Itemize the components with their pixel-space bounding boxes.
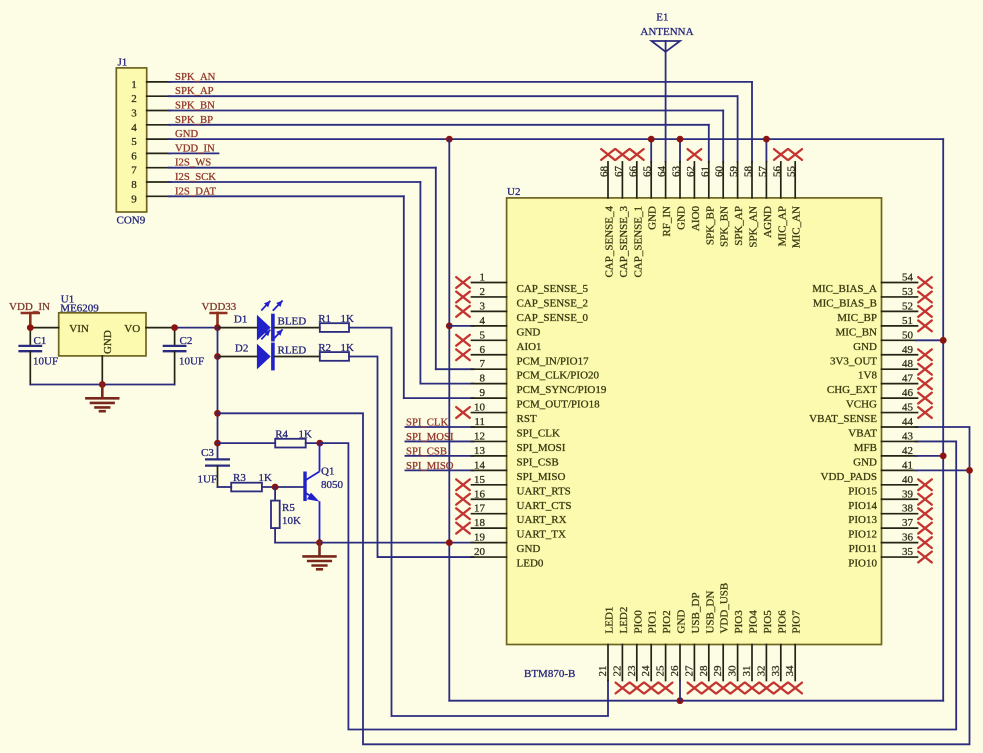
svg-text:33: 33 bbox=[770, 665, 782, 677]
svg-text:GND: GND bbox=[175, 128, 198, 140]
svg-text:16: 16 bbox=[474, 488, 486, 500]
U2 pin 36 PIO11 bbox=[849, 532, 932, 556]
svg-text:RST: RST bbox=[517, 413, 537, 425]
svg-text:BTM870-B: BTM870-B bbox=[524, 668, 575, 680]
wire antenna to RF_IN bbox=[665, 52, 667, 162]
svg-text:42: 42 bbox=[902, 445, 913, 457]
junction U1 GND bbox=[99, 381, 106, 388]
svg-text:48: 48 bbox=[902, 358, 914, 370]
wire emitter to pin19 bbox=[320, 542, 474, 544]
svg-text:PIO2: PIO2 bbox=[661, 610, 673, 633]
U2 pin 32 PIO5 bbox=[755, 610, 774, 694]
node SPK_AN label bbox=[175, 71, 216, 83]
svg-text:41: 41 bbox=[902, 459, 913, 471]
IC U2 BTM870-B bbox=[507, 186, 882, 680]
svg-text:ANTENNA: ANTENNA bbox=[640, 26, 693, 38]
U2 pin 10 RST bbox=[456, 402, 537, 426]
svg-text:MIC_AN: MIC_AN bbox=[791, 206, 803, 248]
svg-text:36: 36 bbox=[902, 532, 914, 544]
U2 pin 17 UART_RX bbox=[456, 503, 566, 527]
junction GND mid at pin4 bbox=[446, 322, 453, 329]
svg-text:1: 1 bbox=[131, 79, 137, 91]
svg-text:1K: 1K bbox=[299, 428, 313, 440]
U2 pin 45 VBAT_SENSE bbox=[809, 402, 932, 426]
svg-text:34: 34 bbox=[784, 665, 796, 677]
wire I2S_DAT horizontal bbox=[169, 195, 404, 197]
svg-text:Q1: Q1 bbox=[321, 466, 334, 478]
svg-text:10UF: 10UF bbox=[179, 356, 204, 368]
regulator U1 ME6209 bbox=[59, 294, 146, 356]
wire VDD33 branch D2 bbox=[217, 328, 219, 357]
svg-text:I2S_DAT: I2S_DAT bbox=[175, 185, 216, 197]
svg-text:VDD_USB: VDD_USB bbox=[719, 583, 731, 634]
wire GND rail right vertical bbox=[942, 139, 944, 701]
svg-text:VIN: VIN bbox=[69, 323, 89, 335]
svg-text:13: 13 bbox=[474, 445, 486, 457]
svg-text:VDD_IN: VDD_IN bbox=[175, 142, 215, 154]
junction emitter node bbox=[316, 539, 323, 546]
U2 pin 12 SPI_MOSI bbox=[472, 430, 566, 454]
svg-text:6: 6 bbox=[480, 344, 486, 356]
svg-text:18: 18 bbox=[474, 517, 486, 529]
U2 pin 31 PIO4 bbox=[741, 610, 760, 694]
svg-text:C3: C3 bbox=[201, 447, 214, 459]
svg-text:44: 44 bbox=[902, 416, 914, 428]
svg-text:PIO3: PIO3 bbox=[733, 610, 745, 634]
wire I2S_DAT vertical bbox=[403, 196, 405, 398]
svg-text:PIO0: PIO0 bbox=[632, 610, 644, 634]
svg-text:15: 15 bbox=[474, 474, 486, 486]
svg-text:VDD_IN: VDD_IN bbox=[9, 301, 50, 313]
svg-text:35: 35 bbox=[902, 546, 914, 558]
svg-text:MIC_BP: MIC_BP bbox=[837, 312, 877, 324]
wire I2S_WS horizontal bbox=[169, 167, 436, 169]
svg-text:GND: GND bbox=[517, 543, 541, 555]
J1 pin 4 bbox=[131, 122, 170, 134]
U2 pin 20 LED0 bbox=[472, 546, 544, 570]
wire pin41 VDD_PADS bbox=[916, 469, 970, 471]
wire VO rail bbox=[146, 327, 218, 329]
svg-text:45: 45 bbox=[902, 402, 914, 414]
svg-text:SPI_MOSI: SPI_MOSI bbox=[406, 431, 454, 443]
wire R3 to base bbox=[262, 486, 305, 488]
U2 pin 59 SPK_AP bbox=[728, 162, 745, 246]
svg-text:67: 67 bbox=[613, 166, 625, 178]
ground under Q1 bbox=[304, 543, 336, 570]
J1 pin 1 bbox=[131, 79, 170, 91]
svg-text:UART_CTS: UART_CTS bbox=[517, 500, 572, 512]
U2 pin 2 CAP_SENSE_2 bbox=[456, 286, 588, 310]
U2 pin 38 PIO13 bbox=[848, 503, 932, 527]
wire GND bottom horizontal bbox=[449, 700, 943, 702]
U2 pin 23 PIO0 bbox=[626, 610, 645, 694]
svg-text:37: 37 bbox=[902, 517, 914, 529]
junction base node bbox=[272, 484, 279, 491]
svg-text:23: 23 bbox=[626, 665, 638, 677]
svg-text:UART_TX: UART_TX bbox=[517, 529, 567, 541]
svg-text:LED1: LED1 bbox=[604, 607, 616, 634]
svg-text:R4: R4 bbox=[275, 428, 288, 440]
wire VDD33 vertical bbox=[217, 357, 219, 460]
svg-text:55: 55 bbox=[786, 166, 798, 178]
wire pin42 GND bbox=[916, 455, 944, 457]
svg-text:SPK_BP: SPK_BP bbox=[175, 114, 213, 126]
svg-text:61: 61 bbox=[699, 166, 711, 177]
svg-text:USB_DN: USB_DN bbox=[704, 591, 716, 634]
svg-text:8: 8 bbox=[480, 373, 486, 385]
node I2S_DAT label bbox=[175, 185, 216, 197]
svg-text:C2: C2 bbox=[180, 335, 193, 347]
svg-text:62: 62 bbox=[685, 166, 697, 177]
svg-text:10UF: 10UF bbox=[33, 356, 58, 368]
svg-text:66: 66 bbox=[627, 166, 639, 178]
wire SPK_AP horizontal bbox=[169, 95, 738, 97]
U2 pin 47 CHG_EXT bbox=[827, 373, 932, 397]
svg-text:8: 8 bbox=[131, 179, 137, 191]
wire SPK_AN vertical bbox=[751, 82, 753, 162]
svg-text:PIO11: PIO11 bbox=[849, 543, 877, 555]
svg-text:8050: 8050 bbox=[321, 479, 344, 491]
U2 pin 14 SPI_MISO bbox=[472, 459, 566, 483]
U2 pin 65 GND bbox=[642, 162, 659, 230]
U2 pin 29 VDD_USB bbox=[712, 583, 731, 694]
U2 pin 25 PIO2 bbox=[655, 610, 674, 693]
svg-text:R5: R5 bbox=[282, 502, 295, 514]
J1 pin 3 bbox=[131, 108, 170, 120]
svg-text:39: 39 bbox=[902, 488, 914, 500]
svg-text:SPI_MOSI: SPI_MOSI bbox=[517, 442, 566, 454]
junction VDD_IN node bbox=[27, 324, 34, 331]
svg-text:10: 10 bbox=[474, 402, 486, 414]
resistor R3 1K bbox=[231, 472, 272, 491]
node I2S_WS label bbox=[175, 157, 211, 169]
svg-text:AIO0: AIO0 bbox=[690, 206, 702, 232]
wire C1 C2 ground rail bbox=[30, 384, 174, 386]
capacitor C1 bbox=[18, 328, 58, 385]
svg-text:SPI_MISO: SPI_MISO bbox=[406, 460, 454, 472]
svg-text:UART_RTS: UART_RTS bbox=[517, 485, 571, 497]
J1 pin 2 bbox=[131, 93, 170, 105]
wire R4 to collector node bbox=[306, 442, 320, 444]
wire pin9 row bbox=[404, 397, 474, 399]
U2 pin 4 GND bbox=[472, 315, 541, 339]
wire SPK_BN horizontal bbox=[169, 110, 724, 112]
wire SPI_MOSI bbox=[405, 440, 473, 442]
svg-text:SPK_BN: SPK_BN bbox=[175, 100, 215, 112]
svg-text:59: 59 bbox=[728, 166, 740, 178]
U2 pin 50 GND bbox=[853, 329, 917, 353]
svg-text:SPK_AP: SPK_AP bbox=[175, 85, 214, 97]
connector J1 bbox=[116, 57, 146, 227]
wire to R4 bbox=[218, 442, 276, 444]
svg-text:GND: GND bbox=[853, 456, 877, 468]
svg-text:PIO14: PIO14 bbox=[848, 500, 877, 512]
U2 pin 7 PCM_CLK/PIO20 bbox=[472, 358, 600, 382]
svg-text:54: 54 bbox=[902, 272, 914, 284]
svg-text:AGND: AGND bbox=[762, 206, 774, 238]
svg-text:68: 68 bbox=[599, 166, 611, 178]
junction GND at pin57 bbox=[763, 136, 770, 143]
U2 pin 67 CAP_SENSE_3 bbox=[613, 149, 630, 277]
U2 pin 35 PIO10 bbox=[848, 546, 932, 570]
svg-text:CAP_SENSE_5: CAP_SENSE_5 bbox=[517, 283, 589, 295]
svg-text:PIO15: PIO15 bbox=[848, 485, 877, 497]
svg-text:PIO1: PIO1 bbox=[647, 610, 659, 633]
svg-text:7: 7 bbox=[131, 165, 137, 177]
junction GND at pin63 bbox=[677, 136, 684, 143]
antenna E1 bbox=[640, 12, 693, 52]
U2 pin 16 UART_CTS bbox=[456, 488, 571, 512]
svg-text:26: 26 bbox=[669, 665, 681, 677]
U2 pin 57 AGND bbox=[757, 162, 774, 238]
wire I2S_SCK horizontal bbox=[169, 181, 421, 183]
svg-text:40: 40 bbox=[902, 474, 914, 486]
U2 pin 19 GND bbox=[472, 532, 541, 556]
svg-text:30: 30 bbox=[727, 665, 739, 677]
U2 pin 27 USB_DP bbox=[683, 593, 702, 694]
junction VBAT tap bbox=[214, 410, 221, 417]
svg-text:AIO1: AIO1 bbox=[517, 341, 542, 353]
svg-text:9: 9 bbox=[480, 387, 486, 399]
svg-text:49: 49 bbox=[902, 344, 914, 356]
U2 pin 55 MIC_AN bbox=[786, 149, 803, 248]
J1 pin 6 bbox=[131, 150, 170, 162]
svg-text:63: 63 bbox=[671, 166, 683, 178]
U2 pin 58 SPK_AN bbox=[743, 162, 760, 248]
svg-text:3V3_OUT: 3V3_OUT bbox=[830, 355, 877, 367]
svg-text:CAP_SENSE_0: CAP_SENSE_0 bbox=[517, 312, 589, 324]
svg-text:GND: GND bbox=[517, 326, 541, 338]
svg-text:D2: D2 bbox=[235, 343, 248, 355]
U2 pin 15 UART_RTS bbox=[456, 474, 571, 498]
wire D2 anode bbox=[218, 356, 257, 358]
junction collector node bbox=[316, 440, 323, 447]
svg-text:1K: 1K bbox=[341, 313, 355, 325]
U2 pin 42 GND bbox=[853, 445, 917, 469]
svg-text:SPK_AN: SPK_AN bbox=[175, 71, 216, 83]
svg-text:46: 46 bbox=[902, 387, 914, 399]
wire VDD_IN horizontal bbox=[169, 152, 219, 154]
svg-text:1: 1 bbox=[480, 272, 486, 284]
U2 pin 53 MIC_BIAS_B bbox=[813, 286, 932, 310]
J1 pin 8 bbox=[131, 179, 170, 191]
svg-text:D1: D1 bbox=[234, 314, 247, 326]
svg-text:28: 28 bbox=[698, 665, 710, 677]
capacitor C2 bbox=[163, 328, 204, 385]
wire GND drop pin65 bbox=[650, 139, 652, 162]
wire SPI_CSB bbox=[405, 455, 473, 457]
capacitor C3 bbox=[198, 447, 231, 487]
svg-text:32: 32 bbox=[755, 666, 767, 677]
U2 pin 34 PIO7 bbox=[784, 610, 803, 694]
svg-text:SPI_CLK: SPI_CLK bbox=[517, 428, 560, 440]
svg-text:I2S_WS: I2S_WS bbox=[175, 157, 211, 169]
svg-text:22: 22 bbox=[611, 666, 623, 677]
svg-text:5: 5 bbox=[480, 329, 486, 341]
wire GND drop pin63 bbox=[679, 139, 681, 162]
U2 pin 18 UART_TX bbox=[456, 517, 566, 541]
wire VDD33 to D1 bbox=[218, 327, 257, 329]
U2 pin 68 CAP_SENSE_4 bbox=[599, 149, 616, 277]
svg-text:RLED: RLED bbox=[278, 345, 307, 357]
wire SPI_CLK bbox=[405, 426, 473, 428]
wire GND horizontal bbox=[169, 138, 944, 140]
junction C2 node bbox=[171, 324, 178, 331]
U2 pin 28 USB_DN bbox=[698, 591, 717, 694]
svg-text:BLED: BLED bbox=[278, 316, 307, 328]
svg-text:VCHG: VCHG bbox=[846, 399, 877, 411]
svg-text:PIO13: PIO13 bbox=[848, 514, 877, 526]
U2 pin 54 MIC_BIAS_A bbox=[812, 272, 932, 296]
led D2 RLED bbox=[235, 329, 306, 370]
svg-text:CHG_EXT: CHG_EXT bbox=[827, 384, 877, 396]
pin U1 GND bbox=[101, 356, 103, 385]
U2 pin 37 PIO12 bbox=[848, 517, 932, 541]
svg-text:1K: 1K bbox=[259, 472, 273, 484]
svg-text:38: 38 bbox=[902, 503, 914, 515]
J1 pin 9 bbox=[131, 193, 170, 205]
svg-text:CAP_SENSE_2: CAP_SENSE_2 bbox=[517, 297, 589, 309]
svg-text:VO: VO bbox=[124, 323, 140, 335]
svg-text:CAP_SENSE_3: CAP_SENSE_3 bbox=[618, 206, 630, 278]
wire SPK_BN vertical bbox=[722, 111, 724, 162]
wire GND drop pin57 bbox=[765, 139, 767, 162]
svg-text:PIO4: PIO4 bbox=[748, 610, 760, 634]
wire R5 to emitter bbox=[275, 542, 319, 544]
svg-text:25: 25 bbox=[655, 665, 667, 677]
wire R1 to LED1 net bbox=[349, 328, 608, 716]
U2 pin 26 GND bbox=[669, 610, 688, 681]
junction VDD_PADS VBAT bbox=[966, 467, 973, 474]
wire SPI_MISO bbox=[405, 469, 473, 471]
svg-text:9: 9 bbox=[131, 193, 137, 205]
wire D2 to R2 bbox=[275, 356, 320, 358]
svg-text:10K: 10K bbox=[282, 515, 301, 527]
svg-text:4: 4 bbox=[480, 315, 486, 327]
svg-text:PIO7: PIO7 bbox=[791, 610, 803, 634]
svg-text:PCM_IN/PIO17: PCM_IN/PIO17 bbox=[517, 355, 590, 367]
U2 pin 30 PIO3 bbox=[727, 610, 746, 694]
svg-text:GND: GND bbox=[647, 206, 659, 230]
svg-text:SPI_CSB: SPI_CSB bbox=[517, 456, 559, 468]
svg-text:SPK_AP: SPK_AP bbox=[733, 206, 745, 246]
U2 pin 24 PIO1 bbox=[640, 610, 659, 693]
svg-text:4: 4 bbox=[131, 122, 137, 134]
U2 pin 13 SPI_CSB bbox=[472, 445, 559, 469]
svg-text:E1: E1 bbox=[656, 12, 668, 24]
U2 pin 43 MFB bbox=[854, 430, 918, 454]
svg-text:1V8: 1V8 bbox=[858, 370, 877, 382]
U2 pin 62 AIO0 bbox=[685, 149, 702, 231]
wire pin4 GND bbox=[449, 325, 473, 327]
U2 pin 61 SPK_BP bbox=[699, 162, 716, 245]
U2 pin 64 RF_IN bbox=[656, 162, 673, 237]
svg-text:43: 43 bbox=[902, 430, 914, 442]
svg-text:CAP_SENSE_4: CAP_SENSE_4 bbox=[604, 206, 616, 278]
svg-text:SPK_AN: SPK_AN bbox=[748, 206, 760, 248]
wire VDD_IN to VIN bbox=[30, 327, 58, 329]
wire R2 to LED0 net bbox=[349, 357, 474, 558]
svg-text:PIO10: PIO10 bbox=[848, 558, 877, 570]
wire SPK_BP horizontal bbox=[169, 124, 709, 126]
node SPI_CSB label bbox=[406, 445, 447, 457]
svg-text:52: 52 bbox=[902, 300, 913, 312]
svg-text:LED2: LED2 bbox=[618, 607, 630, 634]
transistor Q1 8050 bbox=[305, 443, 344, 542]
svg-text:MFB: MFB bbox=[854, 442, 877, 454]
U2 pin 33 PIO6 bbox=[770, 610, 789, 694]
svg-text:51: 51 bbox=[902, 315, 913, 327]
svg-text:57: 57 bbox=[757, 166, 769, 178]
U2 pin 63 GND bbox=[671, 162, 688, 230]
junction VDD33 node bbox=[214, 324, 221, 331]
J1 pin 5 bbox=[131, 136, 170, 148]
U2 pin 51 MIC_BN bbox=[835, 315, 931, 339]
U2 pin 8 PCM_SYNC/PIO19 bbox=[472, 373, 607, 397]
node I2S_SCK label bbox=[175, 171, 216, 183]
junction D2 branch bbox=[214, 353, 221, 360]
svg-text:56: 56 bbox=[771, 166, 783, 178]
svg-text:VBAT: VBAT bbox=[848, 428, 877, 440]
node SPI_MOSI label bbox=[406, 431, 454, 443]
svg-text:14: 14 bbox=[474, 459, 486, 471]
wire I2S_SCK vertical bbox=[419, 182, 421, 384]
U2 pin 22 LED2 bbox=[611, 607, 630, 694]
U2 pin 5 AIO1 bbox=[456, 329, 541, 353]
U2 pin 49 3V3_OUT bbox=[830, 344, 932, 368]
U2 pin 41 VDD_PADS bbox=[821, 459, 918, 483]
svg-text:PIO12: PIO12 bbox=[848, 529, 877, 541]
U2 pin 11 SPI_CLK bbox=[472, 416, 560, 440]
svg-text:60: 60 bbox=[714, 166, 726, 178]
svg-text:2: 2 bbox=[131, 93, 137, 105]
wire I2S_WS vertical bbox=[435, 168, 437, 370]
junction GND at pin65 bbox=[648, 136, 655, 143]
svg-text:VBAT_SENSE: VBAT_SENSE bbox=[809, 413, 877, 425]
svg-text:3: 3 bbox=[131, 108, 137, 120]
svg-text:3: 3 bbox=[480, 300, 486, 312]
wire pin50 GND bbox=[916, 339, 944, 341]
svg-text:27: 27 bbox=[683, 665, 695, 677]
svg-text:1UF: 1UF bbox=[198, 474, 218, 486]
wire GND middle vertical bbox=[448, 139, 450, 701]
svg-text:50: 50 bbox=[902, 329, 914, 341]
U2 pin 60 SPK_BN bbox=[714, 162, 731, 247]
svg-text:SPI_MISO: SPI_MISO bbox=[517, 471, 566, 483]
svg-text:VDD33: VDD33 bbox=[201, 301, 236, 313]
U2 pin 21 LED1 bbox=[597, 607, 616, 681]
resistor R1 1K bbox=[318, 313, 354, 332]
U2 pin 9 PCM_OUT/PIO18 bbox=[472, 387, 601, 411]
svg-text:C1: C1 bbox=[34, 335, 47, 347]
svg-text:19: 19 bbox=[474, 532, 486, 544]
U2 pin 48 1V8 bbox=[858, 358, 932, 382]
U2 pin 52 MIC_BP bbox=[837, 300, 932, 324]
junction GND mid at pin19 bbox=[446, 539, 453, 546]
U2 pin 1 CAP_SENSE_5 bbox=[456, 272, 588, 296]
wire MFB net bbox=[320, 441, 956, 729]
node SPK_BP label bbox=[175, 114, 213, 126]
wire pin7 row bbox=[436, 368, 474, 370]
svg-text:VDD_PADS: VDD_PADS bbox=[821, 471, 877, 483]
junction R4 tap bbox=[214, 440, 221, 447]
svg-text:29: 29 bbox=[712, 665, 724, 677]
U2 pin 39 PIO14 bbox=[848, 488, 932, 512]
wire SPK_BP vertical bbox=[708, 125, 710, 162]
svg-text:R1: R1 bbox=[318, 313, 331, 325]
svg-text:5: 5 bbox=[131, 136, 137, 148]
svg-text:31: 31 bbox=[741, 666, 753, 677]
